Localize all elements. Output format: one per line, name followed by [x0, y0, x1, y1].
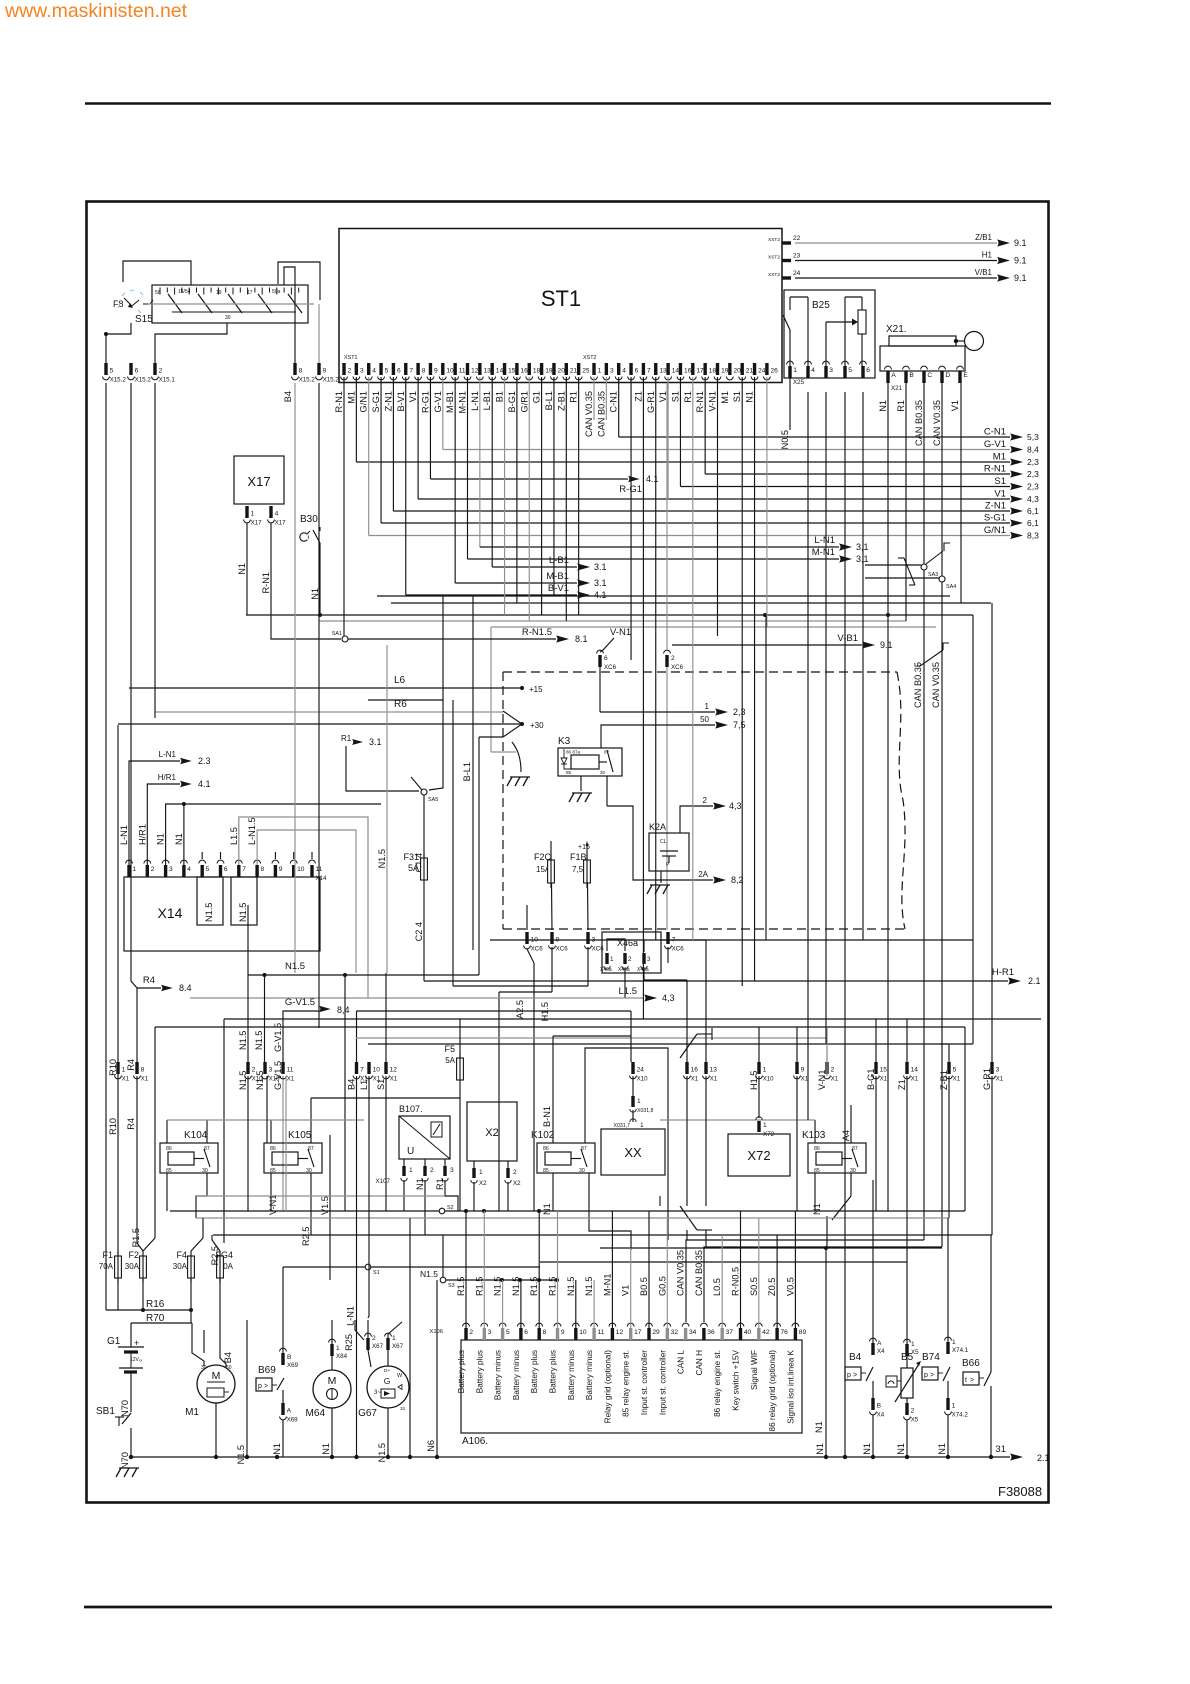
pin 1 X17 — [237, 506, 262, 575]
pin 1 X72 — [756, 1117, 775, 1138]
svg-text:17: 17 — [696, 368, 704, 375]
switch SA1 — [332, 631, 348, 642]
ST1 pin XST1-19 (G1) — [532, 363, 553, 403]
wire C-N1 to sheet 5,3 — [619, 377, 1039, 442]
pin 5 X14 — [199, 852, 210, 877]
wire M-N1 to 3,1 — [468, 377, 869, 564]
svg-text:70A: 70A — [99, 1262, 114, 1271]
wire 286 drop — [285, 1076, 287, 1211]
wire A106 pin 42 up — [758, 1218, 760, 1328]
connector X14 — [124, 877, 320, 951]
wire K103 86 up — [814, 1120, 816, 1143]
wire 2A to 8,2 — [633, 870, 744, 885]
wire N1.5 a drop — [238, 975, 248, 1062]
svg-text:C-N1: C-N1 — [984, 427, 1006, 438]
svg-text:X1: X1 — [141, 1076, 149, 1083]
ignition switch S15 — [135, 285, 308, 325]
wire G-R1 margin column — [991, 603, 993, 1062]
wire A106 pin 89 up — [794, 1211, 796, 1328]
svg-text:40: 40 — [744, 1329, 752, 1336]
wire drop — [578, 377, 580, 615]
wire N6 column — [426, 1280, 437, 1457]
svg-text:X2: X2 — [513, 1180, 521, 1187]
junction ground bus — [871, 1455, 875, 1459]
svg-text:R-N1: R-N1 — [984, 464, 1006, 475]
svg-text:6: 6 — [866, 367, 870, 374]
wire N-bus row — [246, 613, 973, 617]
wire K2A to ground — [660, 871, 662, 883]
wire F2C down — [551, 883, 554, 930]
A106 pin 3 X106 (R1.5 / Battery plus) — [474, 1277, 491, 1394]
svg-text:2: 2 — [151, 866, 155, 873]
svg-text:9: 9 — [279, 866, 283, 873]
svg-text:X1: X1 — [691, 1076, 699, 1083]
svg-text:3: 3 — [829, 367, 833, 374]
svg-text:1: 1 — [610, 956, 614, 963]
wire R4 lower — [137, 1076, 143, 1251]
pin 3 B107 — [435, 1159, 454, 1190]
wire X25-6 drop — [862, 392, 864, 940]
wire label A4 — [841, 1105, 851, 1143]
svg-text:1: 1 — [132, 866, 136, 873]
svg-text:1: 1 — [705, 702, 710, 711]
wire X17-1 to N-bus — [246, 523, 248, 615]
wire X46a-3 stub — [643, 940, 645, 952]
svg-text:5,3: 5,3 — [1027, 432, 1039, 442]
svg-text:30A: 30A — [173, 1262, 188, 1271]
pin 4 X25 — [805, 361, 816, 378]
svg-text:86: 86 — [166, 1146, 172, 1152]
svg-text:14: 14 — [911, 1067, 919, 1074]
svg-text:R2.5: R2.5 — [301, 1227, 311, 1246]
wire 31 to 2.1 — [991, 1444, 1050, 1463]
junction ground bus — [330, 1455, 334, 1459]
wire 248 drop — [247, 1076, 249, 1211]
A106 pin 42 X106 (S0.5 / Signal WIF) — [749, 1277, 770, 1390]
svg-text:K2A: K2A — [649, 822, 666, 832]
grey feed row 1120b — [660, 1119, 815, 1121]
ST1 pin XST2-16 (S1) — [670, 363, 691, 402]
svg-text:V-N1: V-N1 — [817, 1070, 827, 1090]
wire A106 pin 5 up — [502, 1280, 504, 1328]
svg-text:t: t — [965, 1377, 967, 1384]
svg-text:S3: S3 — [448, 1283, 455, 1289]
svg-text:R4: R4 — [143, 975, 155, 986]
svg-text:N1.5: N1.5 — [511, 1277, 521, 1296]
svg-text:R25: R25 — [344, 1334, 354, 1351]
wire above 1 X10 — [758, 1027, 760, 1062]
wire A106 pin 12 up — [611, 1211, 613, 1328]
svg-text:N1.5: N1.5 — [204, 903, 214, 922]
junction ground bus — [129, 1455, 133, 1459]
svg-text:N1: N1 — [814, 1421, 824, 1433]
ground K2A — [647, 885, 670, 894]
wire 391 bus up — [385, 973, 387, 1062]
pin 8 X15.2 — [292, 363, 316, 384]
wire S15 to pin 9 — [278, 262, 320, 300]
wire XST2-19 to XC6-6 — [599, 667, 601, 712]
svg-text:H-R1: H-R1 — [992, 967, 1014, 978]
svg-text:F1: F1 — [102, 1250, 113, 1260]
A106 pin 89 X106 (V0.5 / Signal iso int.linea K) — [785, 1277, 806, 1424]
wire right margin a — [972, 615, 974, 1044]
wire S1 row — [283, 1264, 540, 1276]
svg-text:Battery plus: Battery plus — [530, 1350, 539, 1393]
svg-text:N1.5: N1.5 — [238, 1071, 248, 1090]
svg-text:N1: N1 — [542, 1203, 552, 1215]
wire drop — [528, 377, 530, 621]
pin 24 X10 stub — [632, 1076, 634, 1096]
svg-text:B4: B4 — [223, 1352, 233, 1363]
pin C X21 (CAN B0.35) — [914, 366, 932, 446]
ST1 pin XST2-7 (Z1) — [633, 363, 651, 402]
pin 5 X25 — [842, 361, 853, 378]
wire row 1019 — [224, 1019, 1041, 1243]
pin 14 X1 (Z1) — [897, 1062, 919, 1090]
pin 1 X031,7 — [614, 1119, 644, 1129]
wire L1.5 to 4,3 — [190, 986, 675, 1003]
wire L6 +15 — [129, 675, 543, 694]
wire N1.5 grey column — [377, 645, 387, 973]
pin 1 X84 — [329, 1320, 348, 1370]
wire G/N1 to sheet 8,3 — [369, 377, 1039, 541]
A106 pin 9 X106 (R1.5 / Battery plus) — [548, 1277, 565, 1394]
svg-text:S1: S1 — [376, 1079, 386, 1090]
ST1 pin XST1-2 (R-N1) — [334, 363, 352, 412]
svg-text:R4: R4 — [126, 1118, 136, 1130]
svg-text:7: 7 — [242, 866, 246, 873]
svg-text:7,5: 7,5 — [733, 720, 746, 730]
wire A106 pin 10 up — [575, 1280, 577, 1328]
svg-text:89: 89 — [799, 1329, 807, 1336]
svg-text:2,3: 2,3 — [1027, 457, 1039, 467]
pin 1 X14 — [119, 825, 136, 877]
wire X17-4 to SA1 — [271, 523, 341, 639]
svg-text:X17: X17 — [275, 520, 287, 527]
svg-text:X15.2: X15.2 — [299, 377, 316, 384]
wire V1.5 drop — [320, 1135, 330, 1280]
svg-text:1: 1 — [409, 1167, 413, 1174]
svg-text:5: 5 — [206, 866, 210, 873]
switch SA5 — [368, 700, 443, 803]
svg-text:X15.1: X15.1 — [159, 377, 176, 384]
wire CAN B0.35 column — [686, 383, 924, 1322]
svg-text:X21.: X21. — [886, 324, 907, 335]
svg-text:13: 13 — [659, 368, 667, 375]
svg-text:8: 8 — [299, 368, 303, 375]
svg-text:B4: B4 — [849, 1352, 862, 1363]
ST1 pin XST2-4 (C-N1) — [609, 363, 627, 412]
svg-text:X67: X67 — [392, 1343, 404, 1350]
svg-text:S1: S1 — [732, 391, 742, 402]
svg-text:V-B1: V-B1 — [837, 633, 858, 644]
wire X25-4 drop — [807, 392, 809, 1120]
svg-text:2: 2 — [430, 1167, 434, 1174]
svg-text:10: 10 — [579, 1329, 587, 1336]
svg-text:X25: X25 — [793, 379, 805, 386]
pin 2 XC6 — [664, 650, 684, 671]
svg-text:30: 30 — [600, 770, 606, 775]
svg-text:G-V1: G-V1 — [433, 391, 443, 412]
svg-text:A: A — [287, 1408, 292, 1415]
svg-text:K105: K105 — [288, 1130, 312, 1141]
A106 pin 29 X106 (B0.5 / Input st. controller) — [639, 1277, 660, 1415]
wire drop — [553, 377, 555, 596]
svg-text:24: 24 — [637, 1067, 645, 1074]
svg-text:5: 5 — [385, 368, 389, 375]
ST1 pin XST1-4 (G/N1) — [359, 363, 377, 412]
wire column 453 — [452, 700, 454, 986]
svg-text:www.maskinisten.net: www.maskinisten.net — [4, 0, 188, 22]
svg-text:X15.2: X15.2 — [110, 377, 127, 384]
svg-text:2A: 2A — [698, 870, 708, 879]
wire 2 to 4,3 — [680, 796, 742, 833]
svg-text:X74.2: X74.2 — [952, 1412, 969, 1419]
svg-text:16: 16 — [691, 1067, 699, 1074]
wire B107 pins down — [404, 1180, 458, 1235]
pin 10 X1 (L1) — [359, 1062, 381, 1090]
wire 826 down — [815, 1248, 826, 1457]
svg-text:Battery plus: Battery plus — [457, 1350, 466, 1393]
svg-text:Z-B1: Z-B1 — [939, 1070, 949, 1090]
svg-text:N1: N1 — [237, 563, 247, 575]
wire K105 85 down — [268, 1173, 278, 1215]
svg-text:XC6: XC6 — [672, 946, 685, 953]
svg-text:X10: X10 — [637, 1076, 649, 1083]
wire pin9 grey drop — [318, 304, 320, 363]
svg-text:R1: R1 — [683, 391, 693, 403]
svg-text:B-V1: B-V1 — [396, 391, 406, 411]
svg-text:A4: A4 — [841, 1130, 851, 1141]
starter motor M1 — [185, 1365, 235, 1418]
svg-text:16: 16 — [684, 368, 692, 375]
ST1 pin XST1-15 (B1) — [495, 363, 516, 402]
wire row 596 — [377, 595, 950, 597]
svg-text:G1: G1 — [532, 391, 542, 403]
svg-text:4.1: 4.1 — [594, 590, 607, 600]
svg-text:2: 2 — [372, 1335, 376, 1342]
svg-text:X74.1: X74.1 — [952, 1347, 969, 1354]
svg-text:7: 7 — [409, 368, 413, 375]
ST1 pin XST1-14 (L-B1) — [482, 363, 503, 410]
pin 3 X1 (G-R1) — [982, 1062, 1004, 1090]
wire X15.1-2 to S15-30 — [155, 323, 227, 363]
pin 24 X10 — [630, 1062, 649, 1083]
svg-text:R-N1: R-N1 — [695, 391, 705, 412]
svg-text:N1.5: N1.5 — [255, 1071, 265, 1090]
svg-text:2: 2 — [159, 368, 163, 375]
pin D X21 (CAN V0.35) — [932, 366, 950, 446]
svg-text:N1.5: N1.5 — [238, 903, 248, 922]
svg-text:R1.5: R1.5 — [474, 1277, 484, 1296]
wire X21-E drop — [960, 383, 962, 603]
svg-text:S1: S1 — [373, 1270, 380, 1276]
wire row 1235 — [213, 1234, 992, 1236]
wire drop — [766, 377, 768, 627]
svg-text:C-N1: C-N1 — [609, 391, 619, 412]
svg-text:+: + — [134, 1338, 139, 1348]
svg-text:L-N1: L-N1 — [119, 825, 129, 845]
svg-text:86 relay engine st.: 86 relay engine st. — [713, 1350, 722, 1417]
wire K103 30 down — [827, 1173, 851, 1248]
svg-text:R-N0.5: R-N0.5 — [731, 1267, 741, 1296]
svg-text:p: p — [847, 1372, 851, 1379]
wire N1 bus X14 — [166, 802, 381, 865]
svg-text:6,1: 6,1 — [1027, 518, 1039, 528]
svg-text:G-R1: G-R1 — [982, 1068, 992, 1090]
svg-text:1: 1 — [392, 1335, 396, 1342]
wire above 13 X1 — [660, 940, 706, 1062]
svg-text:Relay grid (optional): Relay grid (optional) — [603, 1350, 612, 1424]
wire A106 pin 29 up — [648, 1211, 650, 1328]
wire X15.1-2 drop — [154, 383, 156, 718]
junction ground bus — [946, 1455, 950, 1459]
pin 3 XC6 — [585, 932, 605, 953]
svg-text:M: M — [328, 1375, 337, 1387]
wire 1 to 2,3 — [600, 702, 746, 717]
svg-text:B0.5: B0.5 — [639, 1277, 649, 1296]
wire above 15 X1 — [875, 1019, 877, 1062]
svg-text:V1: V1 — [621, 1285, 631, 1296]
sensor B5 — [886, 1352, 921, 1402]
wire 687 low — [686, 1230, 688, 1240]
svg-text:7: 7 — [647, 368, 651, 375]
svg-text:12: 12 — [616, 1329, 624, 1336]
wire drop — [642, 377, 644, 1019]
relay K103 — [802, 1130, 866, 1174]
fuse F8 symbol — [113, 290, 153, 313]
fuse F1 — [99, 1250, 122, 1283]
svg-text:8: 8 — [422, 368, 426, 375]
wire L-N1.5 from X14-8 — [257, 830, 356, 973]
svg-text:M1: M1 — [346, 391, 356, 404]
wire row 1248 — [600, 1246, 942, 1250]
wire L-N1 to 3,1 — [480, 377, 869, 552]
wire G-V1.5 to 8,4 — [283, 997, 350, 1062]
svg-text:N1.5: N1.5 — [238, 1031, 248, 1050]
wire 907 drop — [906, 1076, 908, 1262]
wire H/R1 to 4.1 — [147, 773, 210, 865]
svg-text:C: C — [927, 372, 932, 379]
pin 2 X15.1 — [152, 363, 176, 384]
svg-text:G/N1: G/N1 — [984, 525, 1006, 536]
wire V1 to sheet 4,3 — [418, 377, 1039, 504]
svg-text:1: 1 — [952, 1403, 956, 1410]
A106 pin 40 X106 (R-N0.5 / Key switch +15V) — [731, 1267, 752, 1411]
wire F8 row (grey) — [148, 303, 314, 305]
svg-text:N70: N70 — [120, 1452, 130, 1469]
svg-text:11: 11 — [287, 1067, 294, 1074]
svg-text:SA4: SA4 — [946, 584, 956, 590]
svg-text:2,3: 2,3 — [1027, 469, 1039, 479]
svg-text:4: 4 — [811, 367, 815, 374]
svg-text:12: 12 — [471, 368, 479, 375]
pin 2 X14 — [137, 824, 154, 877]
svg-text:X1: X1 — [831, 1076, 839, 1083]
switch B30 — [300, 514, 320, 600]
svg-text:F38088: F38088 — [998, 1484, 1042, 1499]
svg-text:42: 42 — [762, 1329, 770, 1336]
svg-text:N1: N1 — [156, 833, 166, 845]
svg-text:V1: V1 — [994, 489, 1006, 500]
svg-text:4: 4 — [187, 866, 191, 873]
svg-text:9.1: 9.1 — [1014, 256, 1027, 266]
junction ground bus — [275, 1455, 279, 1459]
pin 15 X1 (B-G1) — [866, 1062, 888, 1090]
pin 1 X10 (H1.5) — [749, 1062, 774, 1090]
pin 1 X2 — [471, 1161, 487, 1211]
svg-text:2,3: 2,3 — [733, 707, 746, 717]
svg-text:G67: G67 — [358, 1408, 377, 1419]
svg-text:B: B — [909, 372, 914, 379]
pin 10 XC6 — [524, 932, 544, 953]
svg-text:B1: B1 — [495, 391, 505, 402]
svg-text:21: 21 — [570, 368, 578, 375]
svg-text:M-B1: M-B1 — [546, 571, 569, 582]
svg-text:A: A — [891, 372, 896, 379]
svg-text:N1.5: N1.5 — [584, 1277, 594, 1296]
svg-text:9: 9 — [434, 368, 438, 375]
junction ground bus — [843, 1455, 847, 1459]
svg-text:5: 5 — [848, 367, 852, 374]
svg-text:N1: N1 — [321, 1443, 331, 1455]
wire X46a-2 to L1.5 — [624, 968, 626, 998]
svg-text:W: W — [397, 1373, 403, 1379]
svg-text:3,1: 3,1 — [856, 554, 869, 564]
connector X2 — [467, 1102, 517, 1161]
pin 1 X25 — [787, 361, 805, 386]
svg-text:CAN V0.35: CAN V0.35 — [676, 1250, 686, 1296]
pin 9 X15.2 — [316, 363, 340, 384]
svg-text:K103: K103 — [802, 1130, 826, 1141]
svg-text:R1: R1 — [341, 734, 352, 743]
svg-text:G/R1: G/R1 — [519, 391, 529, 412]
relay K102 — [531, 1130, 595, 1174]
svg-text:10: 10 — [297, 866, 305, 873]
wire label B4 — [283, 391, 293, 402]
svg-text:ST1: ST1 — [541, 286, 581, 311]
svg-text:S1: S1 — [994, 476, 1006, 487]
relay K104 — [160, 1130, 218, 1174]
svg-text:24: 24 — [758, 368, 766, 375]
wire row 1038 (grey) — [356, 1037, 827, 1039]
wire 845 down — [844, 1180, 846, 1457]
svg-text:9.1: 9.1 — [880, 640, 893, 650]
svg-text:R2.5: R2.5 — [210, 1246, 220, 1265]
svg-text:CAN L: CAN L — [677, 1350, 686, 1375]
svg-text:11: 11 — [459, 368, 466, 375]
sensor B66 — [962, 1235, 991, 1457]
ST1 pin XST1-9 (R-G1) — [420, 363, 438, 413]
svg-text:>: > — [264, 1383, 268, 1390]
svg-text:2: 2 — [703, 796, 708, 805]
svg-text:H/R1: H/R1 — [137, 824, 147, 845]
svg-text:X4: X4 — [877, 1348, 885, 1355]
svg-text:5: 5 — [953, 1067, 957, 1074]
svg-text:12Vₓₓ: 12Vₓₓ — [130, 1357, 143, 1363]
svg-text:R1: R1 — [569, 391, 579, 403]
svg-text:17: 17 — [634, 1329, 642, 1336]
svg-text:1: 1 — [336, 1345, 340, 1352]
svg-text:8: 8 — [141, 1067, 145, 1074]
svg-text:N1.5: N1.5 — [566, 1277, 576, 1296]
wire N1.5 b drop — [254, 975, 265, 1062]
svg-text:4.1: 4.1 — [198, 779, 211, 789]
svg-text:14: 14 — [496, 368, 504, 375]
wire above 16 X1 — [686, 980, 688, 1062]
svg-text:X107: X107 — [376, 1178, 391, 1185]
pin 3 X46a — [637, 953, 651, 973]
